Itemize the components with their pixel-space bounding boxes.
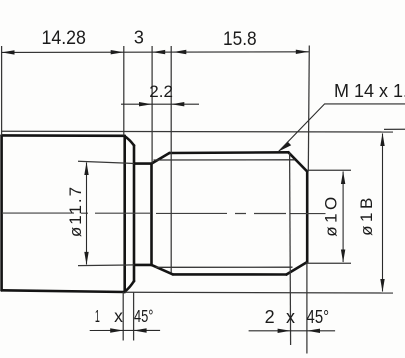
centerline: [2, 212, 326, 215]
neck bottom edge: [134, 264, 152, 267]
flange top edge: [2, 134, 125, 137]
extension line x171 (thread start): [170, 46, 172, 273]
extension line x310 right: [308, 46, 309, 172]
flange chamfer face vertical: [133, 145, 136, 281]
flange chamfer bottom diagonal: [124, 281, 134, 292]
neck top edge: [134, 162, 152, 165]
svg-text:ø11.7: ø11.7: [66, 185, 85, 237]
svg-text:ø1B: ø1B: [357, 194, 376, 236]
svg-text:M 14 x 1.5: M 14 x 1.5: [334, 81, 405, 101]
extension line dia18 top: [2, 130, 393, 133]
arrow 1x45 left pointing right: [110, 328, 123, 332]
thread right end face: [306, 172, 309, 263]
thread minor diameter line top: [154, 159, 295, 161]
arrow 2x45 right pointing left: [307, 329, 320, 333]
thread chamfer top-right diagonal: [288, 152, 307, 171]
arrow dia11.7 down: [84, 252, 88, 265]
flange left edge: [0, 136, 3, 291]
svg-text:1: 1: [95, 306, 100, 326]
flange chamfer top diagonal: [124, 136, 134, 146]
arrow 14.28 left: [2, 50, 15, 54]
svg-text:45°: 45°: [307, 307, 330, 327]
thread minor diameter line bottom: [156, 266, 293, 268]
leader arrowhead: [279, 142, 292, 152]
extension line x152 (neck face): [151, 46, 153, 163]
extension line 2x45 left through part: [290, 153, 291, 345]
svg-text:ø1O: ø1O: [322, 193, 341, 237]
arrow 3 right outside at x152: [152, 50, 165, 54]
svg-text:45°: 45°: [134, 306, 154, 326]
dimension line 2.2: [121, 103, 199, 105]
arrow 2x45 left pointing right: [278, 329, 291, 333]
arrow 15.8 right at x309: [296, 50, 309, 54]
svg-text:3: 3: [134, 28, 144, 48]
extension line dia18 top right stub: [384, 128, 405, 130]
svg-text:2.2: 2.2: [149, 82, 173, 101]
arrow 2.2 left pointing right: [139, 102, 152, 106]
svg-text:x: x: [114, 306, 123, 326]
svg-text:15.8: 15.8: [223, 29, 257, 50]
thread bottom edge (major dia): [173, 273, 287, 276]
dimension line 2x45: [249, 330, 336, 332]
arrow 2.2 right pointing left: [171, 102, 184, 106]
dimension line dia18 vertical: [382, 134, 384, 292]
extension line part left edge up: [1, 46, 3, 136]
dimension line 1x45: [90, 329, 160, 331]
thread top edge (major dia): [169, 151, 288, 154]
arrow dia18 down: [380, 279, 384, 292]
dimension line top (14.28 / 3 / 15.8): [2, 51, 309, 54]
arrow dia18 up: [380, 133, 384, 146]
arrow dia10 down: [341, 250, 345, 263]
arrow 14.28/3 right at x124: [111, 50, 124, 54]
thread chamfer top-left diagonal: [152, 153, 170, 164]
leader line M14: [279, 104, 405, 152]
arrow dia11.7 up: [84, 162, 88, 175]
arrow dia10 up: [341, 171, 345, 184]
extension line dia11.7 top: [78, 161, 134, 163]
dimension line dia10 vertical: [342, 172, 344, 263]
thread chamfer bottom-left diagonal: [152, 265, 173, 275]
extension line dia18 bottom: [125, 291, 393, 294]
extension line dia10 top: [307, 169, 351, 171]
svg-text:2: 2: [265, 307, 275, 327]
arrow 15.8 left at x173: [173, 50, 186, 54]
svg-text:14.28: 14.28: [41, 28, 86, 49]
flange right face: [123, 136, 126, 292]
extension line 1x45 right below part: [133, 292, 135, 341]
extension line dia10 bottom: [307, 262, 351, 264]
arrow 1x45 right pointing left: [134, 328, 147, 332]
flange bottom edge: [2, 290, 125, 292]
svg-text:x: x: [286, 307, 295, 327]
thread chamfer bottom-right diagonal: [286, 262, 307, 275]
extension line 1x45 left below part: [122, 292, 124, 341]
extension line x124 (flange face): [123, 46, 125, 136]
dimension line dia11.7 vertical: [86, 163, 88, 265]
thread start face: [150, 164, 153, 265]
extension line dia11.7 bottom: [78, 264, 134, 267]
extension line 2x45 right below part: [306, 262, 308, 354]
